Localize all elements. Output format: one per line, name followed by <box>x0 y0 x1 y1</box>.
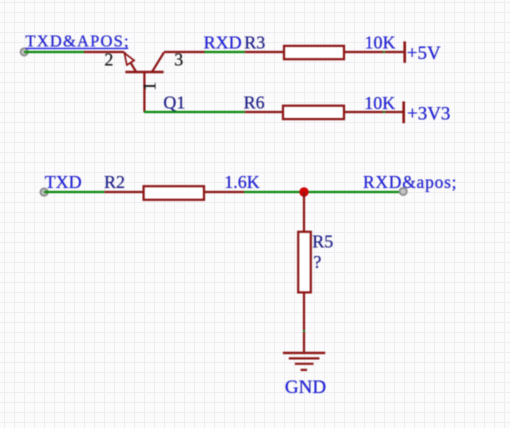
wire <box>205 51 245 53</box>
svg-text:Q1: Q1 <box>163 93 185 113</box>
net label TXD&APOS; <box>26 32 130 51</box>
resistor R3 <box>245 46 384 59</box>
svg-text:RXD: RXD <box>204 32 242 52</box>
port TXD pin <box>41 189 48 196</box>
junction <box>299 187 308 196</box>
svg-text:10K: 10K <box>365 33 396 53</box>
resistor R2 <box>104 186 244 200</box>
svg-text:+5V: +5V <box>407 43 441 64</box>
wire <box>244 191 400 193</box>
svg-text:+3V3: +3V3 <box>407 103 450 124</box>
svg-text:R3: R3 <box>244 32 265 52</box>
port TXD' pin <box>21 48 28 55</box>
svg-text:R2: R2 <box>104 172 125 192</box>
wire stub <box>383 111 386 113</box>
power port +5V <box>385 41 441 63</box>
transistor Q1 <box>84 52 205 112</box>
svg-text:10K: 10K <box>364 93 395 113</box>
svg-text:GND: GND <box>285 377 326 398</box>
svg-text:?: ? <box>313 252 321 272</box>
resistor R6 <box>245 106 384 119</box>
wire stub <box>303 330 305 333</box>
wire <box>144 111 245 113</box>
wire <box>44 191 104 193</box>
svg-text:TXD: TXD <box>45 172 82 192</box>
port RXD' pin <box>400 188 407 195</box>
wire stub <box>383 51 386 53</box>
svg-text:2: 2 <box>104 49 113 69</box>
ground GND <box>283 332 325 370</box>
svg-text:1: 1 <box>139 82 159 91</box>
wire <box>24 51 85 53</box>
svg-text:R6: R6 <box>244 93 265 113</box>
svg-text:3: 3 <box>174 49 183 69</box>
svg-text:R5: R5 <box>312 232 333 252</box>
svg-text:1.6K: 1.6K <box>224 172 259 192</box>
resistor R5 <box>298 192 311 331</box>
svg-text:RXD&apos;: RXD&apos; <box>363 172 457 192</box>
power port +3V3 <box>385 101 450 124</box>
